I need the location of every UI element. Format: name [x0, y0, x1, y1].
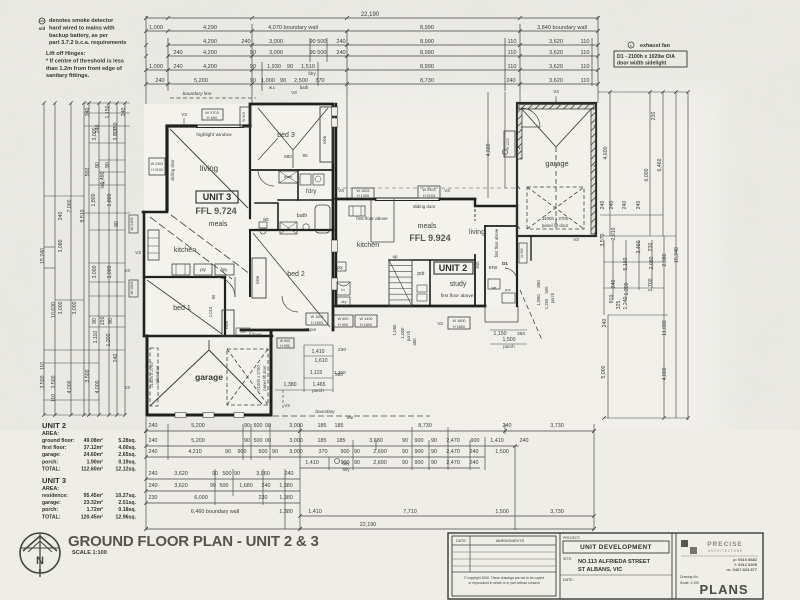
svg-text:500: 500 [220, 483, 229, 489]
unit2 bottom window labels [333, 315, 353, 327]
svg-text:240: 240 [149, 483, 158, 489]
unit3 oven label [236, 328, 250, 335]
svg-text:90: 90 [354, 449, 360, 455]
svg-text:PLANS: PLANS [699, 582, 748, 597]
svg-text:3,500: 3,500 [51, 375, 57, 388]
svg-text:V3: V3 [124, 385, 130, 390]
svg-text:1.90m²: 1.90m² [87, 459, 104, 465]
svg-text:hpy: hpy [221, 267, 229, 272]
svg-text:robe: robe [255, 275, 260, 284]
svg-text:W 1400: W 1400 [359, 317, 372, 321]
svg-text:FFL 9.724: FFL 9.724 [195, 206, 236, 216]
unit2 wall window label x517 [519, 243, 527, 263]
svg-text:110: 110 [40, 362, 46, 370]
svg-text:3,680: 3,680 [369, 438, 383, 444]
svg-text:10,630: 10,630 [51, 302, 57, 318]
svg-text:5,200: 5,200 [191, 438, 205, 444]
svg-text:SCALE 1:100: SCALE 1:100 [72, 550, 107, 556]
svg-text:185: 185 [335, 423, 344, 429]
svg-text:120.45m²: 120.45m² [81, 514, 103, 520]
svg-text:W 909: W 909 [242, 112, 246, 122]
svg-text:8,730: 8,730 [418, 423, 432, 429]
svg-text:living: living [469, 229, 485, 236]
svg-text:or reproduced in whole or in p: or reproduced in whole or in part withou… [468, 581, 539, 585]
svg-text:112.60m²: 112.60m² [81, 466, 103, 472]
svg-text:110: 110 [51, 394, 57, 402]
svg-text:kitchen: kitchen [174, 247, 196, 254]
svg-text:4,000: 4,000 [67, 380, 73, 393]
svg-text:110: 110 [581, 64, 590, 70]
svg-text:900: 900 [471, 438, 480, 444]
boundary line bottom dashed [147, 415, 430, 417]
svg-text:bed 2: bed 2 [287, 271, 305, 278]
unit2 left wall shared [335, 104, 337, 306]
svg-text:90: 90 [402, 460, 408, 466]
unit3 kitchen-bed1 wall [144, 276, 225, 278]
svg-text:7,710: 7,710 [403, 509, 417, 515]
svg-text:4,200: 4,200 [203, 50, 217, 56]
svg-text:door width sidelight: door width sidelight [617, 61, 667, 67]
svg-text:porch: porch [550, 292, 555, 303]
unit2 wall dash x475 [474, 199, 476, 221]
title block right logo [676, 533, 763, 599]
svg-text:W 1503: W 1503 [130, 281, 134, 294]
svg-text:first floor:: first floor: [42, 445, 67, 451]
unit3 window label left outside [149, 158, 165, 175]
svg-text:5,200: 5,200 [191, 423, 205, 429]
unit2 door arc ens [505, 268, 517, 281]
unit2 bottom wall [336, 305, 485, 308]
svg-text:240: 240 [241, 39, 250, 45]
svg-text:5,160: 5,160 [623, 257, 629, 270]
svg-text:8,990: 8,990 [420, 50, 434, 56]
svg-text:first floor above: first floor above [494, 228, 499, 257]
svg-text:W 600: W 600 [338, 317, 349, 321]
svg-text:3,620: 3,620 [174, 471, 188, 477]
svg-text:sanitary fittings.: sanitary fittings. [46, 73, 90, 79]
unit3 bed1-garage wall [144, 335, 272, 338]
svg-text:90: 90 [114, 221, 120, 227]
svg-text:W 2403: W 2403 [130, 217, 134, 230]
svg-text:185: 185 [318, 438, 327, 444]
svg-text:ground floor:: ground floor: [42, 438, 75, 444]
svg-text:panel lift door: panel lift door [262, 365, 267, 391]
svg-text:1,410: 1,410 [312, 349, 325, 355]
svg-text:230: 230 [338, 347, 346, 353]
svg-text:3,730: 3,730 [550, 423, 564, 429]
svg-text:boundary line: boundary line [183, 91, 212, 97]
svg-text:N: N [36, 555, 44, 567]
svg-text:12.96sq.: 12.96sq. [116, 514, 137, 520]
svg-text:150: 150 [100, 317, 106, 326]
svg-text:240: 240 [285, 471, 294, 477]
svg-text:part 3.7.2 b.c.a. requirements: part 3.7.2 b.c.a. requirements [49, 40, 126, 46]
svg-text:meals: meals [209, 221, 228, 228]
svg-text:sliding door: sliding door [170, 159, 175, 181]
unit2 garage panel door dashed [527, 187, 584, 229]
unit3 bed3 window label [240, 107, 250, 127]
svg-text:3,840 boundary wall: 3,840 boundary wall [537, 25, 587, 31]
svg-text:240: 240 [85, 108, 91, 117]
unit2 pdr fixtures [417, 285, 427, 292]
unit3 box label UNIT 3 [196, 191, 238, 203]
svg-text:l'dry: l'dry [306, 189, 317, 195]
svg-text:90: 90 [225, 449, 231, 455]
svg-text:240: 240 [173, 50, 182, 56]
svg-text:linen: linen [252, 332, 262, 338]
unit3 highlight window thin wall [196, 124, 244, 126]
svg-text:In: In [341, 288, 344, 292]
svg-text:4.00sq.: 4.00sq. [118, 445, 136, 451]
svg-text:study: study [450, 281, 467, 288]
svg-text:ens: ens [489, 265, 498, 271]
unit2 garage V3 marks [555, 96, 557, 103]
svg-text:185: 185 [337, 438, 346, 444]
svg-text:240: 240 [336, 50, 345, 56]
svg-text:110: 110 [508, 39, 517, 45]
svg-text:s/d: s/d [39, 26, 46, 31]
svg-text:1,410: 1,410 [308, 509, 322, 515]
svg-text:350: 350 [412, 338, 417, 346]
svg-text:1,410: 1,410 [305, 460, 319, 466]
svg-text:9,510: 9,510 [80, 209, 86, 222]
svg-text:first floor above: first floor above [441, 293, 474, 299]
unit3 wall living-bed3 [249, 126, 251, 218]
svg-text:900: 900 [415, 438, 424, 444]
svg-text:90: 90 [431, 438, 437, 444]
svg-text:3,620: 3,620 [549, 39, 563, 45]
svg-text:90: 90 [212, 471, 218, 477]
svg-text:1,050: 1,050 [392, 324, 397, 336]
svg-text:D1: D1 [502, 261, 508, 266]
svg-text:PRECISE: PRECISE [707, 541, 743, 548]
svg-text:1,000: 1,000 [261, 78, 275, 84]
unit2 entry walls below garage [516, 236, 518, 306]
unit2 4600 dim lines [487, 92, 489, 198]
unit2 garage window label [504, 131, 515, 157]
svg-text:90: 90 [287, 64, 293, 70]
svg-text:roller door: roller door [155, 365, 160, 384]
svg-text:110: 110 [581, 78, 590, 84]
unit2 study walls [429, 260, 431, 306]
svg-text:AMENDMENTS: AMENDMENTS [496, 538, 525, 543]
svg-text:8,990: 8,990 [420, 25, 434, 31]
unit3 living diagonal [170, 129, 248, 208]
svg-text:D1 - 2100h x 1020w O/A: D1 - 2100h x 1020w O/A [617, 54, 675, 60]
svg-text:2100h x 2700: 2100h x 2700 [256, 365, 261, 391]
top dimension block [146, 17, 598, 19]
unit2 dashed window line [336, 187, 517, 189]
svg-text:00: 00 [265, 423, 271, 429]
svg-text:H 2103: H 2103 [151, 168, 163, 172]
svg-text:110: 110 [581, 50, 590, 56]
svg-text:7,060: 7,060 [67, 199, 73, 212]
svg-text:900: 900 [238, 449, 247, 455]
svg-text:2,080: 2,080 [649, 256, 655, 269]
svg-text:porch: porch [312, 388, 324, 393]
svg-text:TOTAL:: TOTAL: [42, 514, 61, 520]
svg-text:240: 240 [149, 471, 158, 477]
svg-text:240: 240 [113, 354, 119, 363]
svg-text:GROUND FLOOR PLAN - UNIT 2 & 3: GROUND FLOOR PLAN - UNIT 2 & 3 [68, 533, 319, 550]
svg-text:3,000: 3,000 [289, 438, 303, 444]
svg-text:1,200: 1,200 [624, 282, 630, 295]
svg-text:2,470: 2,470 [446, 449, 460, 455]
svg-text:0.19sq.: 0.19sq. [118, 459, 136, 465]
unit2 kitchen bench [370, 199, 372, 242]
svg-text:4,600: 4,600 [603, 146, 609, 159]
unit3 window label porch [277, 338, 294, 348]
svg-text:V3: V3 [573, 237, 579, 242]
svg-text:5,000: 5,000 [601, 365, 607, 378]
svg-text:3400h x 2700: 3400h x 2700 [542, 216, 569, 221]
window label left wall 2 [129, 280, 138, 297]
svg-text:porch: porch [406, 330, 411, 341]
svg-text:backup battery, as per: backup battery, as per [49, 33, 109, 39]
svg-text:370: 370 [315, 78, 324, 84]
svg-text:H 2103: H 2103 [423, 194, 435, 198]
svg-text:2,690: 2,690 [373, 449, 387, 455]
bottom dimension block [146, 430, 594, 432]
svg-text:325: 325 [616, 301, 622, 310]
svg-text:4,290: 4,290 [203, 25, 217, 31]
svg-text:90: 90 [250, 64, 256, 70]
title block middle project [560, 533, 672, 599]
svg-text:240: 240 [622, 201, 628, 210]
svg-text:23.32m²: 23.32m² [84, 500, 104, 506]
svg-text:W 909: W 909 [520, 248, 524, 257]
svg-text:240: 240 [149, 449, 158, 455]
svg-text:3,000: 3,000 [92, 265, 98, 278]
svg-text:1,500: 1,500 [495, 449, 509, 455]
unit3 bed2 right wall [332, 230, 335, 330]
svg-text:fdry: fdry [343, 461, 351, 466]
unit3 bed1 diagonal [147, 280, 222, 334]
svg-text:bed 1: bed 1 [173, 305, 191, 312]
svg-text:W 1600: W 1600 [452, 319, 465, 323]
svg-text:370: 370 [319, 449, 328, 455]
svg-text:FFL 9.924: FFL 9.924 [409, 233, 450, 243]
svg-text:3,620: 3,620 [174, 483, 188, 489]
svg-text:W 1503: W 1503 [310, 315, 323, 319]
unit2 interior wall stairs [389, 259, 475, 261]
svg-text:240: 240 [155, 78, 164, 84]
unit2 ens walls [485, 225, 517, 227]
svg-text:UNIT 2: UNIT 2 [439, 263, 468, 273]
left dimension block [43, 103, 45, 415]
svg-text:W 2403: W 2403 [151, 162, 163, 166]
svg-text:V3: V3 [291, 90, 297, 95]
svg-text:than 1.2m from front edge of: than 1.2m from front edge of [46, 66, 122, 72]
svg-text:90: 90 [95, 162, 101, 168]
bottom dim fdry mark [335, 459, 340, 464]
unit3 bed3 roof lines [258, 108, 293, 150]
svg-text:boundary: boundary [315, 409, 335, 414]
svg-text:H 600: H 600 [207, 115, 218, 120]
unit3 hall wall x250 [249, 230, 251, 296]
svg-text:H 900: H 900 [280, 344, 290, 348]
unit2 porch outline [484, 306, 486, 322]
svg-text:Scale: 1:100: Scale: 1:100 [680, 581, 699, 585]
bottom dim verticals [145, 417, 147, 530]
top dim connectors to plan [145, 91, 147, 210]
unit3 bed3 bottom wall [250, 169, 333, 171]
svg-text:dry: dry [341, 300, 346, 304]
unit3 living top wall right [244, 124, 250, 127]
unit3 robe bed1 [222, 310, 234, 336]
svg-text:porch:: porch: [42, 459, 58, 465]
svg-text:90: 90 [250, 78, 256, 84]
svg-text:3,000: 3,000 [289, 423, 303, 429]
boundary line top dashed [170, 97, 256, 99]
svg-text:UNIT 3: UNIT 3 [203, 192, 232, 202]
unit3 right wall windows [332, 107, 338, 116]
svg-text:8,990: 8,990 [420, 64, 434, 70]
svg-text:00: 00 [265, 438, 271, 444]
svg-text:4,600: 4,600 [486, 143, 492, 156]
svg-text:4,000: 4,000 [662, 367, 668, 380]
room interior fills [144, 104, 333, 336]
svg-text:V3: V3 [135, 250, 141, 255]
svg-text:1,800: 1,800 [107, 193, 113, 206]
svg-text:w.c: w.c [269, 85, 276, 90]
svg-text:A R C H I T E C T U R E: A R C H I T E C T U R E [708, 549, 742, 553]
svg-text:90: 90 [210, 483, 216, 489]
svg-text:© copyright 2006. These drawin: © copyright 2006. These drawings are not… [464, 576, 544, 580]
svg-text:110: 110 [581, 39, 590, 45]
svg-text:bed 3: bed 3 [277, 132, 295, 139]
svg-text:1,115: 1,115 [310, 370, 323, 376]
unit2 north wall [336, 198, 375, 201]
svg-text:1,240: 1,240 [623, 296, 629, 309]
svg-text:6,000: 6,000 [194, 495, 208, 501]
svg-text:90: 90 [92, 318, 98, 324]
unit3 bed2 diagonal [253, 233, 330, 327]
svg-text:1,930: 1,930 [267, 64, 281, 70]
svg-text:5.28sq.: 5.28sq. [118, 438, 136, 444]
svg-text:NO.113 ALFRIEDA STREET: NO.113 ALFRIEDA STREET [578, 559, 651, 565]
svg-text:1,380: 1,380 [279, 509, 293, 515]
unit3 living walls [167, 126, 196, 210]
svg-text:1,000: 1,000 [149, 25, 163, 31]
svg-text:95.45m²: 95.45m² [84, 493, 104, 499]
svg-text:robe: robe [224, 320, 229, 329]
svg-text:240: 240 [470, 460, 479, 466]
svg-text:V3: V3 [124, 268, 130, 273]
svg-text:V3: V3 [444, 188, 450, 193]
svg-text:90: 90 [302, 153, 308, 158]
svg-text:3,000: 3,000 [92, 127, 98, 140]
unit3 kitchen fixtures [148, 230, 159, 260]
svg-text:DATE: DATE [456, 539, 466, 543]
svg-text:4,290: 4,290 [203, 39, 217, 45]
svg-text:1,010: 1,010 [208, 306, 213, 317]
svg-text:panel lift door: panel lift door [542, 223, 569, 228]
svg-text:5,200: 5,200 [194, 78, 208, 84]
svg-text:PROJECT:: PROJECT: [563, 536, 581, 540]
svg-text:240: 240 [336, 39, 345, 45]
svg-text:2,080: 2,080 [662, 253, 668, 266]
svg-text:1,150: 1,150 [105, 105, 111, 118]
svg-text:UNIT 2: UNIT 2 [42, 421, 66, 430]
svg-text:240: 240 [173, 64, 182, 70]
unit3 wc toilet [259, 222, 267, 228]
svg-text:4,200: 4,200 [203, 64, 217, 70]
svg-text:exhaust fan: exhaust fan [640, 43, 670, 49]
svg-text:3,000: 3,000 [269, 50, 283, 56]
unit2 ens fixtures [488, 279, 500, 289]
svg-text:500: 500 [254, 438, 263, 444]
svg-text:V3: V3 [437, 321, 443, 326]
svg-text:6,460: 6,460 [657, 158, 663, 171]
svg-text:90: 90 [402, 449, 408, 455]
svg-text:3,620: 3,620 [549, 78, 563, 84]
svg-text:W 2403: W 2403 [422, 188, 435, 192]
svg-text:porch: porch [503, 344, 515, 349]
svg-text:6,000: 6,000 [644, 168, 650, 181]
svg-text:240: 240 [470, 449, 479, 455]
svg-text:3,620: 3,620 [549, 50, 563, 56]
svg-text:3,060: 3,060 [256, 471, 270, 477]
svg-text:1,610: 1,610 [315, 358, 328, 364]
svg-text:240: 240 [262, 483, 271, 489]
svg-text:H 1800: H 1800 [360, 323, 372, 327]
svg-text:3,000: 3,000 [269, 39, 283, 45]
svg-text:980: 980 [284, 154, 292, 159]
svg-text:W 900: W 900 [280, 339, 290, 343]
title block outer [448, 533, 763, 599]
svg-text:kitchen: kitchen [357, 242, 379, 249]
unit3 bed2 bottom wall [241, 329, 308, 332]
svg-text:robe: robe [322, 135, 327, 144]
svg-text:garage: garage [545, 159, 568, 168]
svg-text:V3: V3 [181, 112, 187, 117]
window label W2403 left wall [129, 215, 138, 233]
svg-text:residence:: residence: [42, 493, 68, 499]
svg-text:porch:: porch: [42, 507, 58, 513]
svg-text:90: 90 [402, 438, 408, 444]
svg-text:1,500: 1,500 [495, 509, 509, 515]
svg-text:90 500: 90 500 [309, 39, 326, 45]
svg-text:Drawing No.: Drawing No. [680, 575, 699, 579]
svg-text:linen: linen [284, 175, 292, 179]
svg-text:1,250: 1,250 [544, 298, 549, 309]
svg-text:sliding door: sliding door [413, 204, 436, 209]
svg-text:3,000: 3,000 [58, 301, 64, 314]
svg-text:240: 240 [149, 438, 158, 444]
svg-text:* If centre of threshold is le: * If centre of threshold is less [46, 58, 124, 64]
svg-text:UNIT DEVELOPMENT: UNIT DEVELOPMENT [580, 544, 652, 551]
svg-text:2,470: 2,470 [446, 460, 460, 466]
svg-text:500: 500 [85, 168, 91, 177]
unit3 robe bed3 [320, 107, 333, 162]
svg-text:3,460: 3,460 [636, 240, 642, 253]
svg-text:1,380: 1,380 [279, 483, 293, 489]
svg-text:22,190: 22,190 [361, 12, 380, 18]
unit3 garage roof diagonals [150, 350, 209, 406]
unit3 garage panel door dashed [227, 349, 268, 405]
svg-text:V3: V3 [338, 188, 344, 193]
svg-text:W 1200: W 1200 [506, 138, 510, 150]
svg-text:DATE:: DATE: [563, 578, 574, 582]
svg-text:V3: V3 [553, 89, 559, 94]
svg-text:1,500: 1,500 [503, 337, 516, 343]
svg-text:4,000: 4,000 [95, 380, 101, 393]
svg-text:line: line [347, 415, 354, 420]
svg-text:W 1503: W 1503 [356, 189, 369, 193]
svg-text:240: 240 [609, 201, 615, 210]
svg-text:H 1803: H 1803 [311, 321, 323, 325]
